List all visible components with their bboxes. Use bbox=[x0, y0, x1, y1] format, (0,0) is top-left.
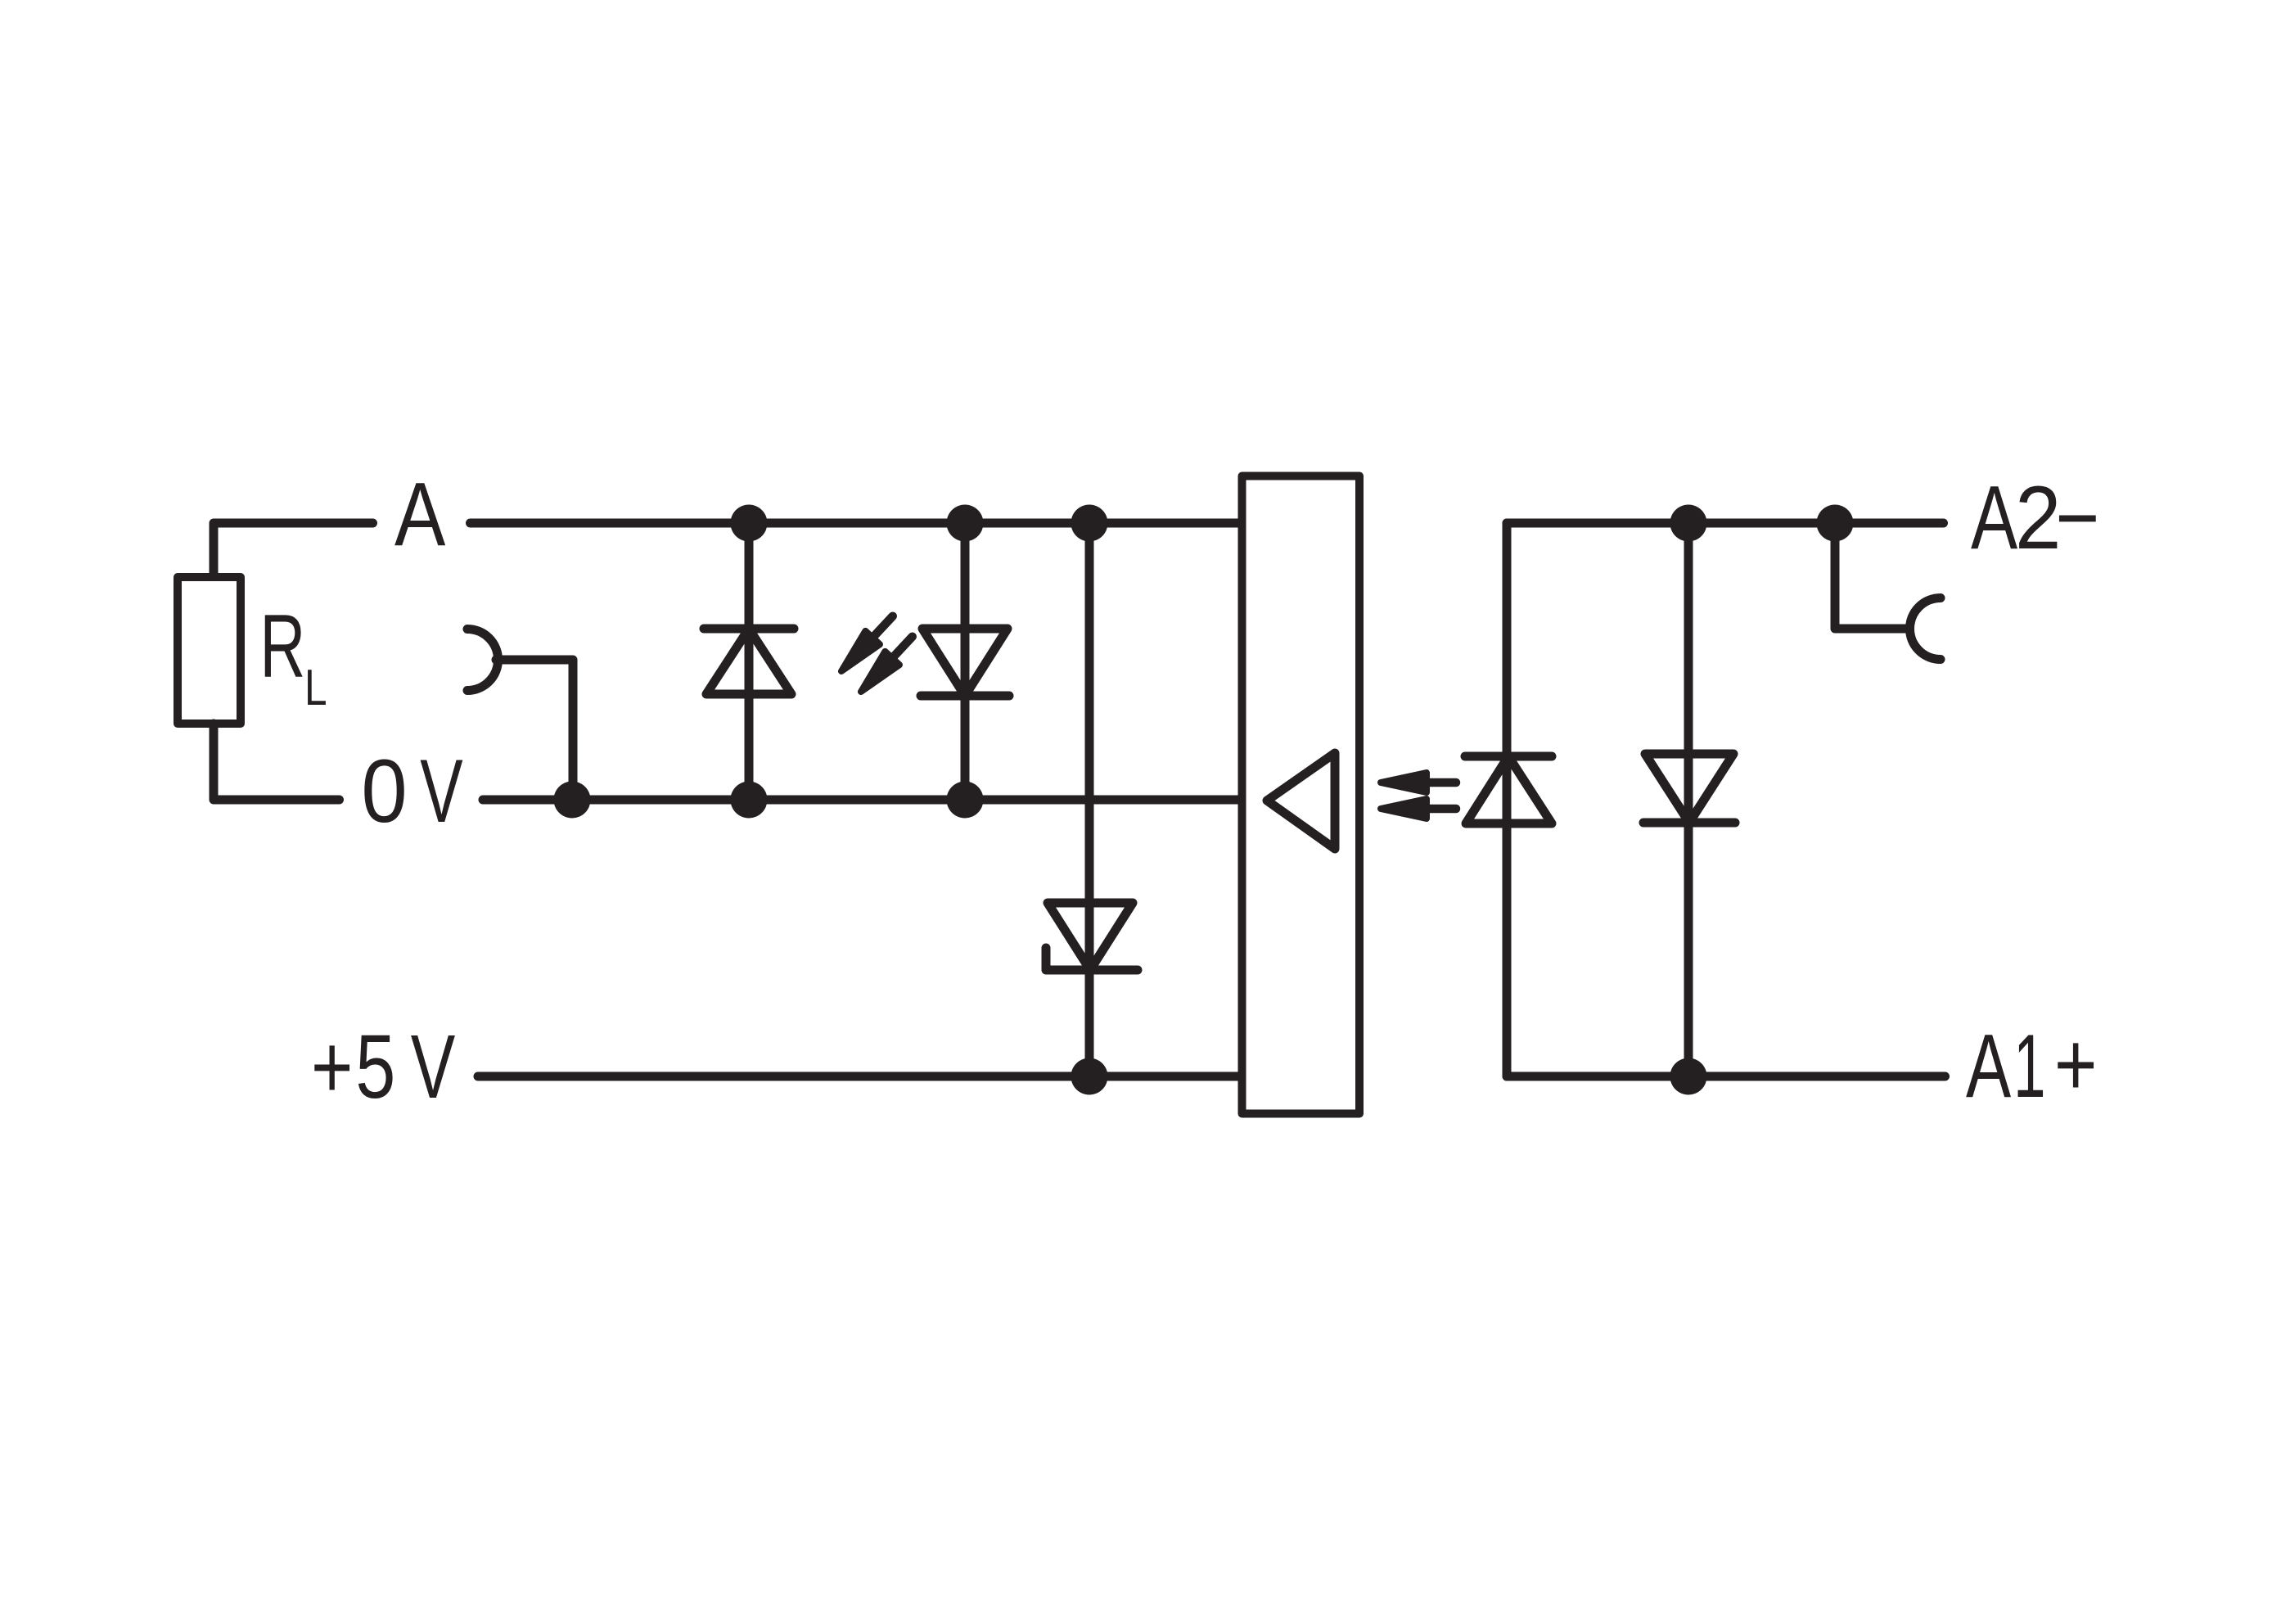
svg-text:5: 5 bbox=[355, 1017, 395, 1118]
connector socket at 0V tap bbox=[467, 629, 498, 691]
junction dot A/zener bbox=[1071, 505, 1108, 542]
svg-text:L: L bbox=[304, 659, 327, 716]
svg-text:A: A bbox=[1971, 467, 2017, 568]
wire 0V-line main bbox=[483, 796, 1242, 805]
wire connector tap at A2 bbox=[1835, 523, 1909, 629]
LED D2 cathode bar bbox=[921, 692, 1009, 701]
zener D5 triangle bbox=[1048, 903, 1133, 970]
diode D1 triangle bbox=[706, 629, 791, 694]
junction dot A/D1 bbox=[731, 505, 768, 542]
arrow at LED lower bbox=[854, 630, 919, 699]
junction dot +5V/zener bbox=[1071, 1058, 1108, 1095]
junction dot top rail connector bbox=[1817, 505, 1854, 542]
svg-text:−: − bbox=[2055, 467, 2099, 568]
connector socket at A2 tap bbox=[1910, 598, 1941, 660]
svg-text:1: 1 bbox=[2013, 1015, 2045, 1116]
junction dot top rail D4 bbox=[1670, 505, 1707, 542]
svg-text:A: A bbox=[1966, 1016, 2011, 1116]
svg-text:A: A bbox=[394, 464, 445, 565]
wire right circuit left vertical bbox=[1503, 523, 1512, 1076]
svg-text:V: V bbox=[420, 741, 463, 841]
svg-text:2: 2 bbox=[2015, 467, 2061, 568]
junction dot bottom rail D4 bbox=[1670, 1058, 1707, 1095]
LED D2 triangle bbox=[922, 629, 1008, 696]
junction dot A/D2 bbox=[947, 505, 984, 542]
svg-text:0: 0 bbox=[361, 741, 407, 841]
wire vertical zener branch bbox=[1085, 523, 1094, 1076]
svg-text:V: V bbox=[411, 1016, 456, 1117]
diode D4 cathode bar bbox=[1643, 819, 1735, 828]
wire A-line main bbox=[471, 519, 1242, 528]
arrow optocoupler upper bbox=[1381, 773, 1456, 792]
wire right circuit bottom rail bbox=[1507, 1072, 1945, 1081]
diode D4 triangle bbox=[1645, 754, 1733, 823]
receiver triangle bbox=[1267, 753, 1335, 849]
svg-text:+: + bbox=[2054, 1015, 2098, 1116]
junction dot 0V/D2 bbox=[947, 782, 984, 819]
wire right diode D4 vertical bbox=[1684, 523, 1693, 1076]
wire vertical LED D2 branch bbox=[961, 523, 970, 800]
svg-text:+: + bbox=[311, 1017, 353, 1118]
zener D5 cathode bar with hook bbox=[1046, 948, 1138, 970]
arrow at LED upper bbox=[834, 610, 899, 679]
wire right circuit top rail bbox=[1507, 519, 1944, 528]
LED light arrows bbox=[834, 610, 1456, 819]
transmitter diode D3 triangle bbox=[1466, 756, 1552, 823]
resistor RL body bbox=[178, 577, 241, 724]
wire resistor bottom to 0V corner bbox=[214, 724, 340, 800]
wire vertical diode D1 branch bbox=[745, 523, 754, 800]
transmitter diode D3 cathode bar bbox=[1465, 752, 1552, 761]
arrow optocoupler lower bbox=[1381, 799, 1456, 819]
junction dot 0V/connector bbox=[554, 782, 591, 819]
wire A-line left corner to resistor bbox=[214, 523, 373, 577]
svg-text:R: R bbox=[259, 597, 305, 697]
wire +5V-line bbox=[478, 1072, 1242, 1081]
diode D1 cathode bar bbox=[704, 625, 794, 634]
wire connector to 0V junction bbox=[496, 660, 573, 800]
optocoupler receiver box U1 bbox=[1242, 476, 1360, 1114]
junction dot 0V/D1 bbox=[731, 782, 768, 819]
